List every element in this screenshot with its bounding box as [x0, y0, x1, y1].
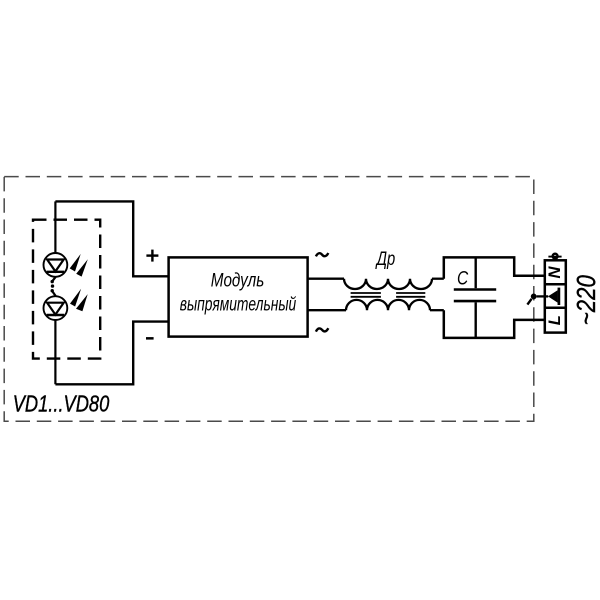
- label - terminal: [146, 337, 154, 340]
- label ~ (bottom AC): [316, 328, 328, 331]
- earth contact dot on enclosure: [527, 294, 536, 305]
- capacitor C: [454, 257, 496, 338]
- rectifier module U1 box: [169, 257, 308, 336]
- wire module to choke (top): [308, 278, 344, 280]
- wire LED string bottom segment: [54, 315, 56, 384]
- earth wire into connector: [537, 295, 549, 297]
- svg-text:L: L: [546, 315, 564, 325]
- LED VD80: [44, 289, 88, 320]
- connector cell divider earth/L: [545, 307, 566, 310]
- svg-text:Модуль: Модуль: [211, 271, 265, 292]
- choke Др winding 1: [344, 279, 432, 289]
- wire - (LED cathode to module): [55, 322, 168, 385]
- choke core bars: [351, 293, 426, 297]
- connector cell divider N/earth: [545, 283, 566, 286]
- wire LED string top segment: [54, 201, 56, 259]
- svg-text:Др: Др: [375, 249, 395, 270]
- wire top rail through capacitor node to connector N: [444, 257, 545, 278]
- wire choke to capacitor node (top): [432, 278, 444, 280]
- svg-text:выпрямительный: выпрямительный: [180, 295, 297, 316]
- choke Др winding 2: [346, 300, 430, 310]
- svg-text:C: C: [457, 267, 469, 289]
- svg-text:VD1...VD80: VD1...VD80: [13, 390, 110, 416]
- label + terminal: [146, 250, 158, 262]
- wire LED string between dots and VD80: [52, 291, 55, 303]
- wire choke to capacitor node (bottom): [430, 309, 444, 311]
- connector XP1 body: [545, 260, 566, 332]
- wire module to choke (bottom): [308, 309, 346, 311]
- screw contact above connector: [548, 254, 561, 259]
- wire + (LED anode to module): [55, 201, 168, 276]
- label ~ (top AC): [316, 253, 328, 256]
- wire bottom rail through capacitor node to connector L: [444, 310, 545, 338]
- LED VD1: [44, 253, 88, 277]
- LED board dashed box: [33, 220, 100, 359]
- wire LED string between VD1 and dots: [52, 272, 55, 281]
- ellipsis dots (VD2...VD79): [51, 280, 55, 293]
- enclosure dashed border (luminaire boundary): [4, 177, 534, 422]
- svg-text:N: N: [546, 266, 564, 279]
- earth symbol (rotated ground): [548, 288, 559, 305]
- svg-text:~220: ~220: [571, 275, 600, 325]
